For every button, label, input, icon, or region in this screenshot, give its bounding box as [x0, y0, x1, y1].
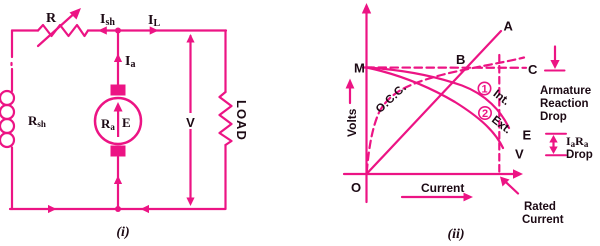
armature EMF arrow	[117, 107, 119, 137]
junction node bottom	[115, 206, 121, 212]
wire armature branch lower	[117, 157, 119, 209]
svg-text:Reaction: Reaction	[540, 98, 589, 110]
svg-text:Current: Current	[421, 181, 464, 195]
arrowhead I_sh (left)	[98, 26, 107, 34]
svg-text:C: C	[528, 62, 538, 77]
IaRa drop indicator	[546, 133, 566, 135]
resistor R	[38, 25, 88, 36]
wire left lower segment	[11, 148, 13, 210]
brush top	[111, 85, 126, 96]
voltmeter arrow line V	[189, 36, 191, 203]
junction node top	[115, 28, 121, 34]
tick at M	[363, 66, 372, 68]
svg-text:(i): (i)	[116, 225, 129, 240]
arrowhead I_a (up)	[114, 54, 122, 63]
arrowhead bottom wire right-pointing	[48, 205, 57, 213]
svg-text:E: E	[122, 115, 131, 130]
arrowhead armature bottom (up)	[114, 176, 122, 185]
x axis	[344, 173, 516, 175]
arrowhead variable resistor	[70, 8, 82, 20]
svg-text:(ii): (ii)	[447, 227, 464, 242]
wire left vertical (dash-dot)	[10, 31, 13, 92]
curve Ext (2)	[367, 68, 504, 149]
arrowhead current arrow	[464, 193, 474, 202]
resistor LOAD	[220, 92, 232, 145]
dashed curve O.C.C.	[367, 58, 524, 173]
variable resistor arrow	[38, 11, 77, 46]
line A	[367, 31, 502, 174]
curve Int (1)	[367, 68, 510, 129]
svg-text:R: R	[46, 11, 57, 26]
armature reaction drop arrow	[554, 47, 556, 63]
svg-text:V: V	[186, 115, 195, 130]
wire top left segment	[12, 29, 38, 31]
wire top middle segment	[88, 29, 226, 31]
volts axis arrow	[349, 84, 351, 103]
svg-text:Armature: Armature	[540, 85, 591, 97]
wire armature branch upper	[117, 31, 119, 86]
svg-text:Drop: Drop	[540, 111, 567, 123]
arrowhead bottom wire left-pointing	[141, 205, 150, 213]
arrowhead y axis	[362, 3, 371, 14]
svg-text:V: V	[515, 147, 524, 162]
wire bottom	[10, 208, 225, 210]
brush bottom	[111, 146, 126, 157]
svg-text:A: A	[504, 19, 514, 34]
wire right lower	[224, 145, 226, 209]
circled 1	[478, 82, 490, 94]
dashed vertical rated current	[498, 55, 500, 173]
svg-text:B: B	[456, 52, 465, 67]
arrowhead I_L (right)	[150, 26, 159, 34]
svg-text:M: M	[354, 61, 365, 76]
label V voltmeter	[184, 113, 197, 129]
dashed horizontal M to C	[367, 66, 527, 69]
svg-text:2: 2	[482, 108, 488, 120]
arrowhead x axis	[513, 169, 523, 178]
svg-text:Drop: Drop	[566, 149, 593, 161]
wire right (LOAD branch) upper	[224, 31, 226, 93]
svg-text:LOAD: LOAD	[234, 100, 249, 141]
arrowhead V bottom (down)	[186, 198, 194, 207]
svg-text:Rated: Rated	[524, 201, 556, 213]
arrowheads IaRa (double)	[549, 135, 557, 143]
rated current leader	[502, 179, 518, 194]
arrowhead rated current leader	[500, 177, 510, 187]
circled 2	[479, 107, 491, 119]
svg-text:Current: Current	[522, 214, 564, 226]
y axis	[365, 8, 367, 202]
svg-text:O: O	[351, 180, 361, 195]
arrowhead V top (up)	[186, 34, 194, 43]
armature circle U1	[95, 98, 141, 144]
svg-text:1: 1	[481, 84, 487, 96]
svg-text:E: E	[523, 128, 532, 143]
svg-text:Volts: Volts	[345, 108, 359, 137]
current axis arrow	[402, 196, 467, 198]
arrowhead volts arrow	[346, 79, 355, 89]
inductor R_sh coil	[0, 91, 14, 105]
arrowhead armature reaction (down)	[550, 60, 559, 69]
